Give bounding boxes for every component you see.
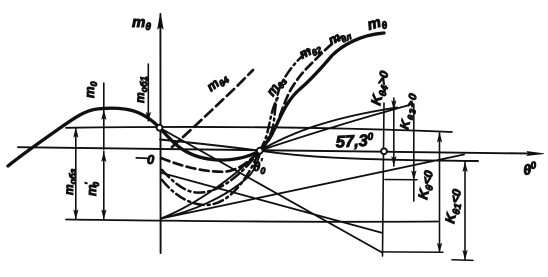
line C (from corner up to K1 dim) [161, 155, 464, 219]
svg-text:Kθ4>0: Kθ4>0 [367, 69, 394, 108]
svg-text:mθ: mθ [132, 14, 151, 33]
tangent line K4 (through trim point, steep positive) [161, 108, 397, 219]
origin tick [136, 157, 149, 160]
svg-text:mобз: mобз [62, 168, 78, 195]
svg-text:m0: m0 [82, 81, 99, 98]
svg-text:Kθ1<0: Kθ1<0 [442, 187, 467, 225]
dash-dot curve m_theta-3 (below axis arc) [162, 151, 260, 205]
dimension K_theta3 [412, 104, 416, 201]
corner curve (m_theta-3 lower reach from origin corner) [161, 154, 260, 219]
K_theta1 bottom tick [452, 259, 473, 262]
dimension m'_o (below axis) with arrows [102, 152, 106, 219]
dimension m_o (peak height) with arrows [102, 83, 106, 150]
svg-text:57,30: 57,30 [335, 132, 374, 152]
dimension K_theta4 [392, 98, 396, 166]
svg-text:Kθ<0: Kθ<0 [415, 169, 439, 201]
dimension K_theta1 (negative) [463, 162, 467, 259]
dimension K_theta (negative) [437, 133, 441, 252]
dash-dot curve m_theta-3 (rising branch) [260, 95, 280, 151]
dashed curve m_theta-l (rising branch) [260, 37, 342, 151]
horizontal axis theta [18, 147, 544, 155]
dash-dot curve m_theta-2 (below axis arc) [162, 151, 260, 193]
svg-text:0: 0 [147, 152, 155, 167]
svg-text:m′0: m′0 [84, 181, 101, 196]
line Q (secant below axis) [162, 173, 383, 233]
dashed curve m_theta-l (below axis arc) [161, 151, 260, 172]
tangent line K3 (shallow positive) [260, 104, 413, 151]
dimension m_ob1 (arrow down to circle1) [146, 64, 150, 121]
node circle3 at 57.3deg [381, 148, 387, 154]
svg-text:θ0: θ0 [522, 160, 538, 178]
dashed curve m_theta-4 [172, 70, 253, 147]
svg-text:mθ2: mθ2 [297, 39, 324, 64]
vertical axis m_theta [158, 13, 164, 253]
svg-text:θ′0: θ′0 [253, 157, 265, 176]
K_theta3 tick [385, 179, 417, 181]
tangent line K (small negative slope) [160, 140, 478, 162]
K_theta bottom tick [382, 251, 443, 253]
svg-text:Kθ3>0: Kθ3>0 [397, 91, 422, 131]
dash-dot curve m_theta-2 (rising branch) [260, 48, 312, 151]
node circle2 trim point theta'_o [257, 148, 263, 154]
bottom reference line (m_ob3 level) [66, 220, 438, 222]
thick main curve m_theta [8, 33, 384, 166]
node circle1 on vertical axis [157, 125, 163, 131]
svg-text:mθ4: mθ4 [204, 69, 231, 96]
line B (from circle1 down to 57.3 vertical) [160, 128, 383, 253]
vertical line at 57.3deg point [383, 103, 385, 256]
svg-text:mоб1: mоб1 [133, 76, 149, 103]
horizontal reference line y=128 (m_ob1 level) [66, 127, 452, 132]
dimension m_ob3 with arrows [74, 128, 78, 219]
